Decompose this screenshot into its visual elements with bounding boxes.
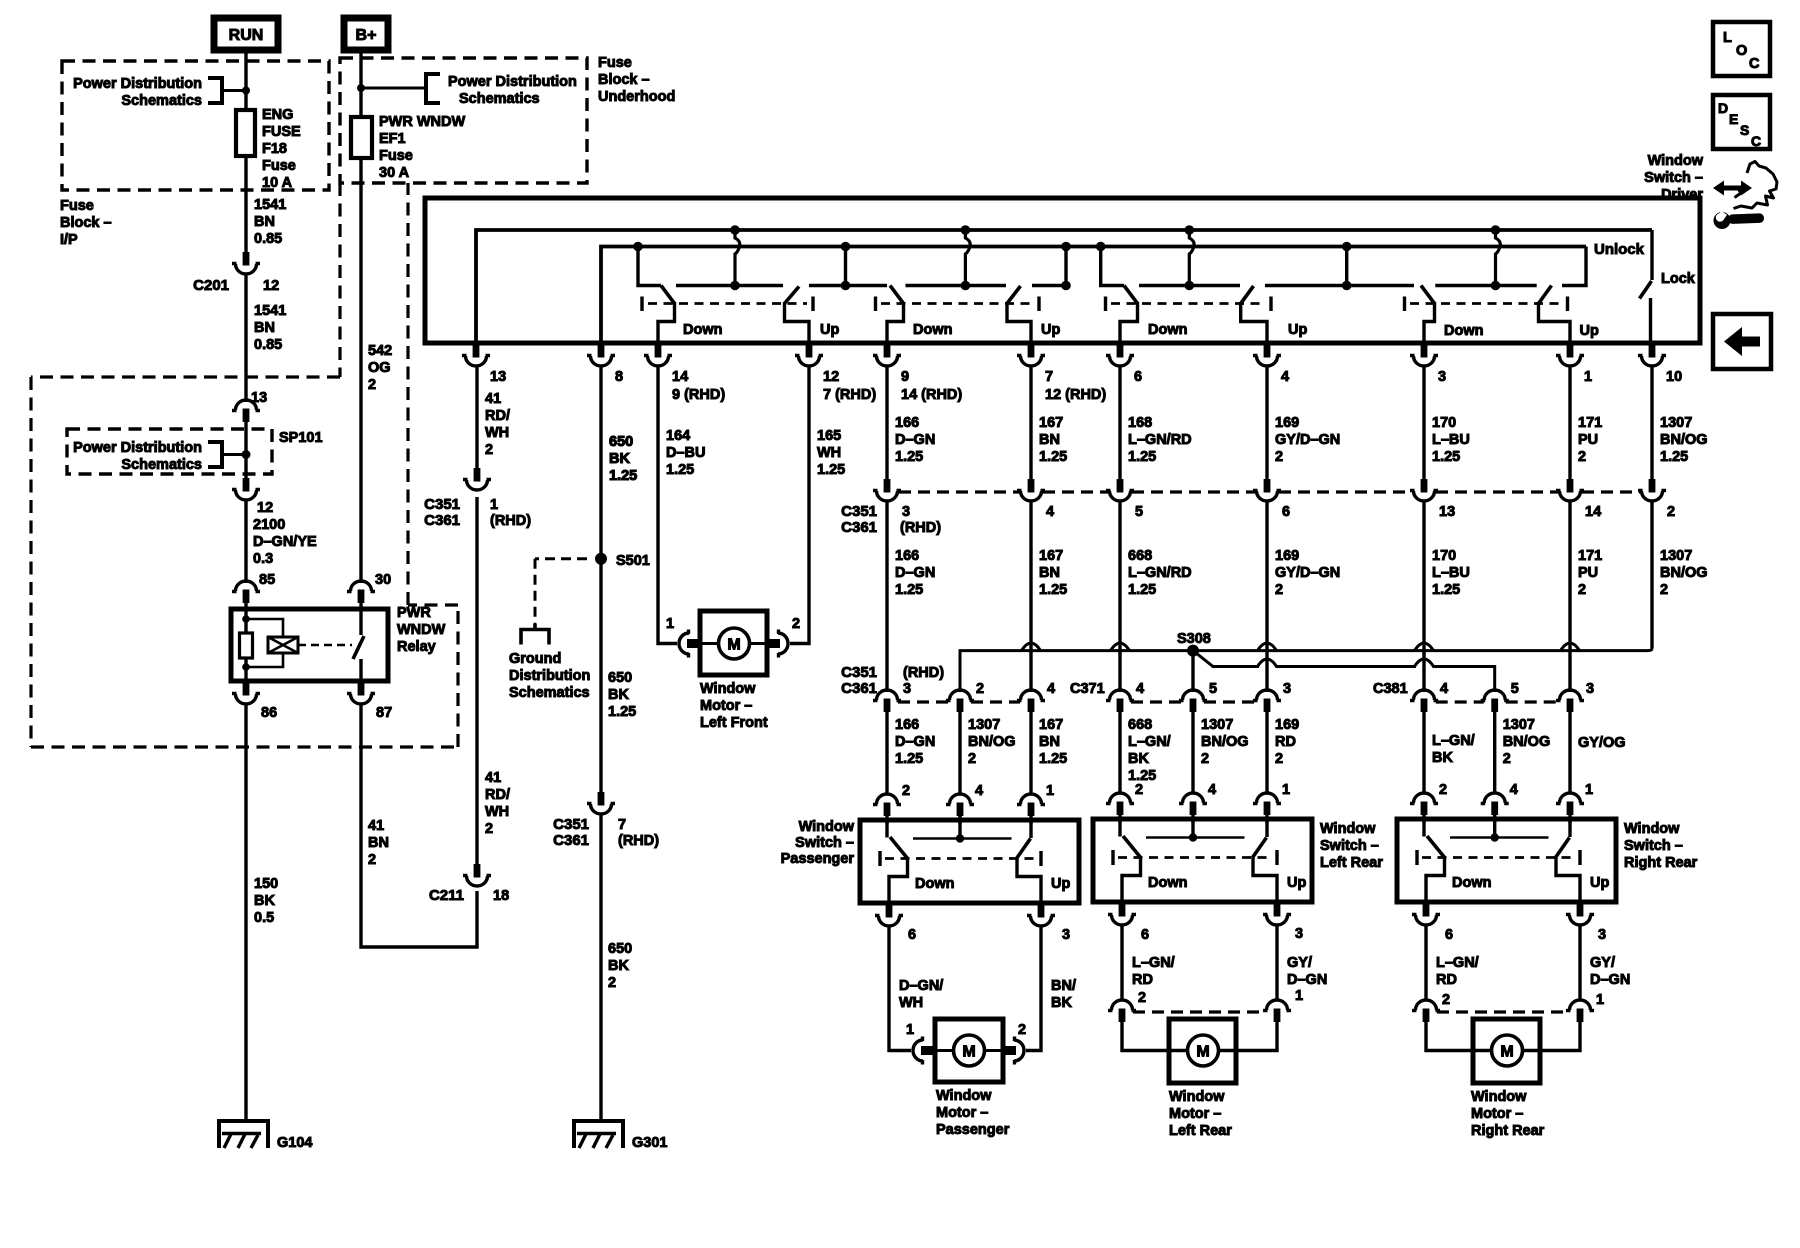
svg-text:169: 169 bbox=[1275, 415, 1299, 431]
connector motor LF pin 2 bbox=[767, 630, 789, 658]
svg-text:M: M bbox=[962, 1044, 975, 1061]
svg-text:L–GN/RD: L–GN/RD bbox=[1128, 565, 1192, 581]
switch assembly Window Switch - Right Rear (outline) bbox=[1397, 819, 1616, 902]
dashed connector line (right rear motor) bbox=[1437, 1010, 1569, 1013]
svg-text:2: 2 bbox=[792, 616, 800, 632]
svg-text:9: 9 bbox=[901, 369, 909, 385]
svg-text:L–GN/: L–GN/ bbox=[1436, 955, 1479, 971]
mechanical link pair 3 bbox=[1104, 297, 1107, 312]
svg-text:2: 2 bbox=[1578, 582, 1586, 598]
svg-text:4: 4 bbox=[1046, 504, 1054, 520]
svg-text:L–GN/: L–GN/ bbox=[1432, 733, 1475, 749]
svg-text:L–BU: L–BU bbox=[1432, 432, 1470, 448]
wire 150 BK 0.5 to ground G104 bbox=[244, 703, 247, 1122]
svg-text:1307: 1307 bbox=[1201, 717, 1233, 733]
dashed region boundary (I/P + relay area) bbox=[338, 183, 341, 377]
svg-text:GY/D–GN: GY/D–GN bbox=[1275, 565, 1340, 581]
relay switch 30-87 bbox=[359, 603, 362, 635]
svg-text:BN: BN bbox=[1039, 432, 1060, 448]
svg-text:D–GN: D–GN bbox=[1590, 972, 1630, 988]
svg-text:1.25: 1.25 bbox=[1039, 582, 1067, 598]
svg-text:PU: PU bbox=[1578, 565, 1598, 581]
svg-text:6: 6 bbox=[1282, 504, 1290, 520]
svg-text:PU: PU bbox=[1578, 432, 1598, 448]
svg-text:1.25: 1.25 bbox=[608, 704, 636, 720]
label Window Switch - Right Rear bbox=[1624, 821, 1698, 871]
fuse F18 (ENG FUSE 10 A) bbox=[236, 110, 255, 156]
svg-text:Switch –: Switch – bbox=[1624, 838, 1683, 854]
svg-text:Schematics: Schematics bbox=[509, 685, 590, 701]
svg-text:2: 2 bbox=[1135, 782, 1143, 798]
svg-text:Down: Down bbox=[1148, 875, 1187, 891]
svg-text:FUSE: FUSE bbox=[262, 124, 301, 140]
svg-text:E: E bbox=[1729, 111, 1738, 127]
mechanical link pair 1 bbox=[640, 297, 643, 312]
svg-text:Down: Down bbox=[1444, 323, 1483, 339]
svg-text:Switch –: Switch – bbox=[795, 835, 854, 851]
svg-text:Fuse: Fuse bbox=[60, 198, 94, 214]
relay coil (box with X) bbox=[246, 619, 283, 637]
switch Right Rear Down bbox=[1422, 819, 1425, 837]
svg-text:7: 7 bbox=[1045, 369, 1053, 385]
svg-text:4: 4 bbox=[1440, 681, 1448, 697]
svg-text:170: 170 bbox=[1432, 548, 1456, 564]
connector at relay pin 30 bbox=[347, 581, 375, 603]
svg-text:S: S bbox=[1740, 122, 1749, 138]
svg-text:C351: C351 bbox=[841, 664, 877, 681]
svg-text:1307: 1307 bbox=[1503, 717, 1535, 733]
wire S308 line 2 to right rear bbox=[1193, 651, 1495, 692]
wire col 1494.7 to switch bbox=[1493, 712, 1496, 794]
switch driver Down (passenger window) bbox=[890, 286, 904, 304]
svg-text:ENG: ENG bbox=[262, 107, 293, 123]
svg-text:C361: C361 bbox=[553, 832, 589, 849]
svg-text:C351: C351 bbox=[424, 496, 460, 513]
svg-text:I/P: I/P bbox=[60, 232, 78, 248]
connector motor passenger pin 2 bbox=[1003, 1037, 1025, 1065]
svg-text:1: 1 bbox=[490, 497, 498, 513]
connector C201 pin 12 bbox=[232, 252, 260, 274]
switch driver Up (left rear window) bbox=[1185, 225, 1195, 235]
svg-text:12 (RHD): 12 (RHD) bbox=[1045, 387, 1106, 403]
mechanical link (Right Rear) bbox=[1417, 850, 1580, 865]
svg-text:RUN: RUN bbox=[229, 27, 264, 44]
svg-text:2: 2 bbox=[968, 751, 976, 767]
svg-text:1.25: 1.25 bbox=[1432, 449, 1460, 465]
svg-text:1.25: 1.25 bbox=[666, 462, 694, 478]
svg-text:650: 650 bbox=[609, 434, 633, 450]
svg-text:542: 542 bbox=[368, 343, 392, 359]
svg-text:4: 4 bbox=[1510, 782, 1518, 798]
svg-text:Up: Up bbox=[1041, 322, 1060, 338]
svg-text:OG: OG bbox=[368, 360, 391, 376]
svg-text:2: 2 bbox=[608, 975, 616, 991]
svg-text:S501: S501 bbox=[616, 553, 650, 569]
svg-text:2: 2 bbox=[368, 377, 376, 393]
wire col 1031 down to C351 row2 (hop at S308 line) bbox=[1029, 500, 1032, 692]
svg-text:2: 2 bbox=[1667, 504, 1675, 520]
svg-text:Window: Window bbox=[799, 819, 855, 835]
svg-text:0.5: 0.5 bbox=[254, 910, 274, 926]
switch assembly Window Switch - Passenger (outline) bbox=[860, 820, 1079, 903]
connector Passenger switch pin 1 (top) bbox=[1017, 794, 1045, 816]
connector right rear motor pin 1 bbox=[1566, 1000, 1594, 1022]
svg-text:BN/: BN/ bbox=[1051, 978, 1076, 994]
svg-text:1: 1 bbox=[1585, 782, 1593, 798]
svg-text:0.85: 0.85 bbox=[254, 337, 282, 353]
wire 164 D-BU to motor LF pin 1 bbox=[658, 366, 677, 644]
connector Left Rear switch pin 4 (top) bbox=[1179, 793, 1207, 815]
connector driver switch pin 14 bbox=[644, 344, 672, 366]
svg-text:C351: C351 bbox=[841, 503, 877, 520]
svg-text:C: C bbox=[1751, 133, 1761, 149]
connector driver switch pin 1 bbox=[1556, 344, 1584, 366]
dashed box around SP101 callout bbox=[67, 429, 272, 474]
svg-text:5: 5 bbox=[1511, 681, 1519, 697]
svg-text:166: 166 bbox=[895, 717, 919, 733]
svg-text:168: 168 bbox=[1128, 415, 1152, 431]
svg-text:D–BU: D–BU bbox=[666, 445, 705, 461]
svg-text:169: 169 bbox=[1275, 717, 1299, 733]
label Window Switch - Driver bbox=[1644, 153, 1704, 203]
wire D-GN/WH to motor passenger pin 1 bbox=[889, 926, 911, 1051]
svg-text:Motor –: Motor – bbox=[1471, 1106, 1523, 1122]
switch driver Up (left front window) bbox=[730, 225, 740, 235]
svg-text:S308: S308 bbox=[1177, 631, 1211, 647]
svg-text:Power Distribution: Power Distribution bbox=[73, 76, 202, 92]
connector at relay pin 86 bbox=[232, 682, 260, 704]
svg-text:C201: C201 bbox=[193, 277, 229, 294]
svg-text:2: 2 bbox=[1439, 782, 1447, 798]
svg-text:1307: 1307 bbox=[1660, 415, 1692, 431]
wire common feed bar (Right Rear) bbox=[1493, 819, 1496, 838]
svg-text:30 A: 30 A bbox=[379, 165, 410, 181]
svg-text:1: 1 bbox=[1584, 369, 1592, 385]
svg-text:BK: BK bbox=[254, 893, 275, 909]
svg-text:1: 1 bbox=[1282, 782, 1290, 798]
wire 542 OG 2 down to relay pin 30 bbox=[359, 158, 362, 583]
svg-text:30: 30 bbox=[375, 572, 391, 588]
svg-text:1.25: 1.25 bbox=[1039, 751, 1067, 767]
svg-text:C381: C381 bbox=[1373, 681, 1408, 697]
svg-text:Unlock: Unlock bbox=[1594, 241, 1645, 258]
connector Left Rear switch pin 1 (top) bbox=[1253, 793, 1281, 815]
svg-text:G104: G104 bbox=[277, 1135, 312, 1151]
callout Power Distribution Schematics (SP101) bbox=[73, 440, 246, 473]
wire S308 branch to C371 pin 5 bbox=[1191, 651, 1194, 692]
connector Passenger switch Up output bbox=[1027, 904, 1055, 926]
switch driver Down (left front window) bbox=[633, 242, 643, 252]
connector driver switch pin 10 bbox=[1638, 344, 1666, 366]
svg-text:(RHD): (RHD) bbox=[618, 833, 659, 849]
svg-text:Window: Window bbox=[1320, 821, 1376, 837]
svg-text:Block –: Block – bbox=[598, 72, 650, 88]
svg-text:10: 10 bbox=[1666, 369, 1682, 385]
node B+ (battery feed) bbox=[344, 18, 388, 50]
svg-text:3: 3 bbox=[1062, 927, 1070, 943]
dashed connector line C351/C361 row 1 bbox=[899, 490, 1019, 493]
connector C211 pin 18 bbox=[463, 864, 491, 886]
svg-text:7 (RHD): 7 (RHD) bbox=[823, 387, 876, 403]
svg-text:167: 167 bbox=[1039, 415, 1063, 431]
callout Ground Distribution Schematics bbox=[521, 559, 587, 645]
svg-text:Right Rear: Right Rear bbox=[1471, 1123, 1545, 1139]
svg-text:GY/OG: GY/OG bbox=[1578, 735, 1626, 751]
svg-text:C371: C371 bbox=[1070, 681, 1105, 697]
svg-text:BN/OG: BN/OG bbox=[1660, 565, 1708, 581]
connector C351/C361 pin 7 (RHD) on ground wire bbox=[587, 792, 615, 814]
svg-text:SP101: SP101 bbox=[279, 430, 323, 446]
motor Window Motor - Right Rear bbox=[1473, 1019, 1540, 1083]
svg-text:Left Rear: Left Rear bbox=[1169, 1123, 1232, 1139]
icon box back-arrow bbox=[1713, 314, 1771, 369]
svg-text:2: 2 bbox=[1138, 990, 1146, 1006]
wire relay 87 output 41 BN 2 bbox=[361, 703, 477, 947]
svg-text:5: 5 bbox=[1135, 504, 1143, 520]
svg-text:4: 4 bbox=[1047, 681, 1055, 697]
wire col 960 to switch bbox=[958, 712, 961, 794]
svg-text:2: 2 bbox=[902, 783, 910, 799]
label Window Switch - Passenger bbox=[781, 819, 855, 867]
connector at relay pin 85 bbox=[232, 581, 260, 603]
icon box DESC bbox=[1713, 95, 1770, 149]
switch driver Down (left rear window) bbox=[1096, 242, 1106, 252]
svg-text:L–BU: L–BU bbox=[1432, 565, 1470, 581]
wire col 1120 down to C371 (hop at S308 line) bbox=[1118, 500, 1121, 692]
svg-text:3: 3 bbox=[1586, 681, 1594, 697]
svg-text:B+: B+ bbox=[356, 27, 377, 44]
connector C351/C361 pin 1 (RHD) on driver feed bbox=[463, 468, 491, 490]
svg-text:1.25: 1.25 bbox=[895, 751, 923, 767]
svg-text:PWR WNDW: PWR WNDW bbox=[379, 114, 465, 130]
switch Passenger Up bbox=[1029, 820, 1032, 838]
svg-text:Up: Up bbox=[820, 322, 839, 338]
dashed connector line row 2 bbox=[898, 700, 949, 703]
svg-text:1.25: 1.25 bbox=[1039, 449, 1067, 465]
mechanical link (Left Rear) bbox=[1113, 850, 1277, 865]
connector C351/C361 pin 2 bbox=[1638, 479, 1666, 501]
svg-text:1.25: 1.25 bbox=[895, 582, 923, 598]
svg-text:C: C bbox=[1749, 56, 1760, 72]
svg-text:D–GN: D–GN bbox=[895, 734, 935, 750]
wire col 1267 down to C371 bbox=[1265, 500, 1268, 692]
svg-text:164: 164 bbox=[666, 428, 690, 444]
connector driver switch pin 12 bbox=[795, 344, 823, 366]
wire col 1570 to switch bbox=[1568, 712, 1571, 794]
svg-text:87: 87 bbox=[376, 705, 392, 721]
svg-text:BN/OG: BN/OG bbox=[1503, 734, 1551, 750]
switch Passenger Down bbox=[885, 820, 888, 838]
wire lock bus bbox=[601, 247, 1586, 344]
svg-text:14: 14 bbox=[1585, 504, 1601, 520]
wire common feed bar (Left Rear) bbox=[1191, 819, 1194, 838]
svg-text:D–GN/: D–GN/ bbox=[899, 978, 943, 994]
wire col 1424 to switch bbox=[1422, 712, 1425, 794]
wire 2100 D-GN/YE to relay pin 85 bbox=[244, 499, 247, 583]
wire col 887 to C351/C361 bbox=[885, 365, 888, 480]
wire common feed bar (Passenger) bbox=[958, 820, 961, 839]
svg-text:1: 1 bbox=[1046, 783, 1054, 799]
svg-text:Window: Window bbox=[1169, 1089, 1225, 1105]
svg-text:D–GN: D–GN bbox=[1287, 972, 1327, 988]
connector C381 pin 3 bbox=[1556, 690, 1584, 712]
svg-text:PWR: PWR bbox=[397, 605, 431, 621]
svg-text:Lock: Lock bbox=[1661, 271, 1696, 287]
svg-text:Window: Window bbox=[1648, 153, 1704, 169]
wire into motor RR left bbox=[1426, 1022, 1490, 1051]
svg-text:167: 167 bbox=[1039, 548, 1063, 564]
svg-text:Driver: Driver bbox=[1661, 187, 1703, 203]
dashed box Fuse Block - Underhood bbox=[340, 58, 587, 183]
connector motor LF pin 1 bbox=[679, 630, 701, 658]
svg-text:Passenger: Passenger bbox=[781, 851, 855, 867]
wire col 1120 to switch bbox=[1118, 712, 1121, 794]
connector Left Rear switch pin 2 (top) bbox=[1106, 793, 1134, 815]
svg-text:1.25: 1.25 bbox=[895, 449, 923, 465]
svg-text:Switch –: Switch – bbox=[1320, 838, 1379, 854]
svg-text:1: 1 bbox=[1295, 988, 1303, 1004]
svg-text:1541: 1541 bbox=[254, 197, 286, 213]
svg-text:M: M bbox=[1500, 1044, 1513, 1061]
svg-text:Up: Up bbox=[1580, 323, 1599, 339]
svg-text:D–GN: D–GN bbox=[895, 565, 935, 581]
svg-text:BK: BK bbox=[1051, 995, 1072, 1011]
svg-text:BN/OG: BN/OG bbox=[1660, 432, 1708, 448]
svg-text:C211: C211 bbox=[429, 887, 464, 904]
svg-text:171: 171 bbox=[1578, 548, 1602, 564]
fuse EF1 (PWR WNDW 30 A) bbox=[351, 117, 372, 158]
wire 650 BK 1.25 from driver switch pin 8 bbox=[599, 366, 602, 792]
connector driver switch pin 7 bbox=[1017, 344, 1045, 366]
svg-text:3: 3 bbox=[903, 681, 911, 697]
svg-text:1: 1 bbox=[906, 1022, 914, 1038]
svg-text:Down: Down bbox=[1452, 875, 1491, 891]
svg-text:1: 1 bbox=[1596, 992, 1604, 1008]
svg-text:0.3: 0.3 bbox=[253, 551, 273, 567]
svg-text:1.25: 1.25 bbox=[1432, 582, 1460, 598]
wire col 1424 to C351/C361 bbox=[1422, 365, 1425, 480]
connector Right Rear switch Up output bbox=[1566, 903, 1594, 925]
connector driver switch pin 3 bbox=[1410, 344, 1438, 366]
svg-text:WH: WH bbox=[485, 425, 509, 441]
wire GY/D-GN (left rear up) bbox=[1275, 926, 1278, 1002]
svg-text:Schematics: Schematics bbox=[459, 91, 540, 107]
svg-text:650: 650 bbox=[608, 941, 632, 957]
svg-text:F18: F18 bbox=[262, 141, 287, 157]
callout Power Distribution Schematics (B+) bbox=[361, 74, 577, 107]
svg-text:169: 169 bbox=[1275, 548, 1299, 564]
svg-text:6: 6 bbox=[1445, 927, 1453, 943]
svg-text:2: 2 bbox=[1275, 751, 1283, 767]
svg-text:Power Distribution: Power Distribution bbox=[73, 440, 202, 456]
svg-text:Right Rear: Right Rear bbox=[1624, 855, 1698, 871]
svg-text:Up: Up bbox=[1590, 875, 1609, 891]
switch driver Lock bbox=[1650, 230, 1653, 280]
svg-text:Motor –: Motor – bbox=[1169, 1106, 1221, 1122]
connector C351/C361 pin 3 bbox=[873, 479, 901, 501]
callout Power Distribution Schematics (I/P) bbox=[73, 76, 246, 109]
connector C381 pin 4 bbox=[1410, 690, 1438, 712]
svg-text:Down: Down bbox=[913, 322, 952, 338]
wire col 887 down to C351 row2 bbox=[885, 500, 888, 692]
svg-text:166: 166 bbox=[895, 415, 919, 431]
wire 41 RD/WH 2 to driver switch pin 13 bbox=[475, 366, 478, 468]
wire L-GN/RD (left rear down) bbox=[1120, 926, 1123, 1002]
wire 650 BK 2 to ground G301 bbox=[599, 813, 602, 1122]
svg-text:1: 1 bbox=[666, 616, 674, 632]
svg-text:8: 8 bbox=[615, 369, 623, 385]
label Window Switch - Left Rear bbox=[1320, 821, 1383, 871]
wire through SP101 bbox=[244, 422, 247, 478]
connector C351/C361 lower pin 4 bbox=[1017, 690, 1045, 712]
switch Right Rear Up bbox=[1568, 819, 1571, 837]
svg-text:165: 165 bbox=[817, 428, 841, 444]
connector left rear motor pin 1 bbox=[1263, 1000, 1291, 1022]
wire L-GN/RD (right rear down) bbox=[1424, 926, 1427, 1002]
svg-text:Motor –: Motor – bbox=[700, 698, 752, 714]
svg-text:5: 5 bbox=[1209, 681, 1217, 697]
ground G301 bbox=[572, 1121, 625, 1148]
svg-text:Down: Down bbox=[683, 322, 722, 338]
svg-text:1541: 1541 bbox=[254, 303, 286, 319]
svg-text:BK: BK bbox=[608, 958, 629, 974]
svg-text:14: 14 bbox=[672, 369, 688, 385]
svg-text:13: 13 bbox=[490, 369, 506, 385]
svg-text:2: 2 bbox=[368, 852, 376, 868]
wire col 1267 to C351/C361 bbox=[1265, 365, 1268, 480]
svg-text:650: 650 bbox=[608, 670, 632, 686]
connector C351/C361 lower pin 3 bbox=[873, 690, 901, 712]
svg-text:2: 2 bbox=[1503, 751, 1511, 767]
svg-text:BN: BN bbox=[368, 835, 389, 851]
ground G104 bbox=[217, 1121, 270, 1148]
connector C371 pin 3 bbox=[1253, 690, 1281, 712]
switch Left Rear Down bbox=[1118, 819, 1121, 837]
svg-text:Down: Down bbox=[915, 876, 954, 892]
svg-text:2: 2 bbox=[1018, 1022, 1026, 1038]
svg-text:BN: BN bbox=[254, 214, 275, 230]
connector driver switch pin 13 bbox=[462, 344, 490, 366]
svg-text:Up: Up bbox=[1051, 876, 1070, 892]
svg-text:1.25: 1.25 bbox=[817, 462, 845, 478]
svg-text:Up: Up bbox=[1288, 322, 1307, 338]
svg-text:BK: BK bbox=[609, 451, 630, 467]
svg-text:2: 2 bbox=[1578, 449, 1586, 465]
svg-text:7: 7 bbox=[618, 817, 626, 833]
svg-text:2: 2 bbox=[976, 681, 984, 697]
svg-text:M: M bbox=[1196, 1044, 1209, 1061]
svg-text:1.25: 1.25 bbox=[1660, 449, 1688, 465]
wire col 1570 to C351/C361 bbox=[1568, 365, 1571, 480]
svg-text:GY/D–GN: GY/D–GN bbox=[1275, 432, 1340, 448]
svg-text:Passenger: Passenger bbox=[936, 1122, 1010, 1138]
svg-text:3: 3 bbox=[902, 504, 910, 520]
svg-text:166: 166 bbox=[895, 548, 919, 564]
motor Window Motor - Passenger bbox=[935, 1019, 1003, 1082]
svg-text:10 A: 10 A bbox=[262, 175, 293, 191]
svg-text:9 (RHD): 9 (RHD) bbox=[672, 387, 725, 403]
wire 1541 BN below C201 bbox=[244, 273, 247, 402]
connector driver switch pin 9 bbox=[873, 344, 901, 366]
svg-text:Fuse: Fuse bbox=[598, 55, 632, 71]
svg-text:4: 4 bbox=[975, 783, 983, 799]
svg-text:1307: 1307 bbox=[968, 717, 1000, 733]
svg-text:668: 668 bbox=[1128, 717, 1152, 733]
wire col 1267 to switch bbox=[1265, 712, 1268, 794]
svg-text:41: 41 bbox=[485, 770, 501, 786]
wire BN/BK to motor passenger pin 2 bbox=[1026, 926, 1041, 1051]
svg-text:(RHD): (RHD) bbox=[903, 665, 944, 681]
